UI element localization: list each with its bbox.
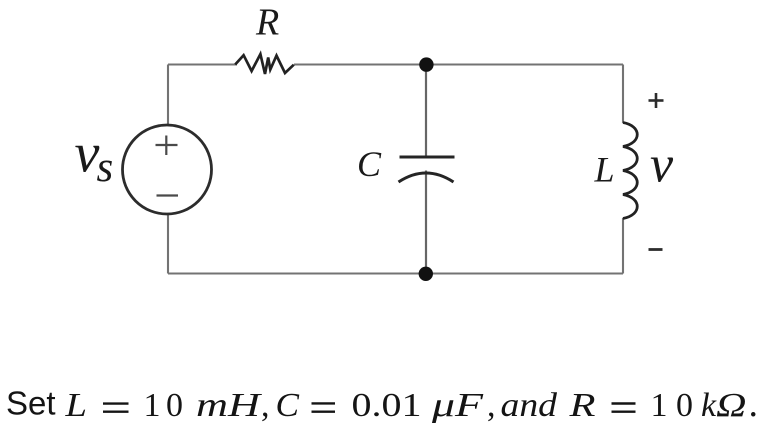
capacitor C1 bottom curved plate	[399, 173, 454, 182]
svg-text:μF: μF	[431, 387, 485, 424]
svg-text:0: 0	[676, 387, 693, 424]
svg-text:L: L	[594, 150, 615, 190]
voltage source plus sign	[156, 136, 178, 156]
wire top (resistor to node A to top-right corner)	[294, 63, 623, 65]
svg-text:C: C	[357, 144, 382, 184]
resistor R1 zigzag	[235, 54, 294, 74]
caption: Set L = 10 mH, C = 0.01 uF, and R = 10 kOhm.	[6, 383, 758, 425]
svg-text:Ω: Ω	[716, 387, 747, 424]
caption equals 1	[103, 402, 129, 404]
wire bottom (left corner to node B to bottom-right corner)	[168, 272, 623, 274]
capacitor C1 top plate	[400, 156, 455, 159]
svg-text:R: R	[568, 387, 596, 424]
node A junction dot (top)	[419, 57, 433, 71]
wire capacitor bottom lead	[425, 171, 427, 274]
label + (polarity top)	[649, 93, 664, 108]
inductor L1 coil	[623, 123, 637, 219]
caption equals 2	[312, 402, 336, 404]
wire capacitor top lead	[425, 65, 427, 158]
svg-text:1: 1	[651, 387, 668, 424]
svg-text:0: 0	[166, 387, 183, 424]
svg-text:v: v	[650, 137, 674, 194]
svg-text:.: .	[749, 383, 759, 425]
wire right vertical lower (inductor bottom)	[622, 218, 624, 274]
svg-text:C: C	[276, 387, 300, 424]
svg-text:k: k	[701, 387, 717, 424]
svg-text:mH: mH	[196, 387, 263, 424]
wire right vertical upper (to inductor top)	[622, 65, 624, 124]
caption equals 3	[612, 402, 636, 404]
svg-text:0.01: 0.01	[352, 387, 422, 424]
voltage source minus sign	[157, 194, 179, 196]
svg-text:Set: Set	[6, 385, 56, 422]
svg-text:,: ,	[261, 387, 270, 424]
svg-text:and: and	[501, 387, 559, 424]
wire top-left horizontal (source to resistor)	[168, 63, 237, 65]
svg-text:L: L	[64, 387, 87, 424]
wire left vertical lower (source bottom lead)	[167, 213, 169, 274]
svg-text:R: R	[255, 2, 279, 44]
wire left vertical upper (source top lead)	[167, 65, 169, 127]
label minus (polarity bottom)	[649, 248, 663, 251]
node B junction dot (bottom)	[419, 267, 433, 281]
voltage source VS circle	[123, 125, 212, 214]
svg-text:1: 1	[144, 387, 161, 424]
svg-text:,: ,	[487, 387, 496, 424]
svg-text:s: s	[97, 144, 114, 191]
